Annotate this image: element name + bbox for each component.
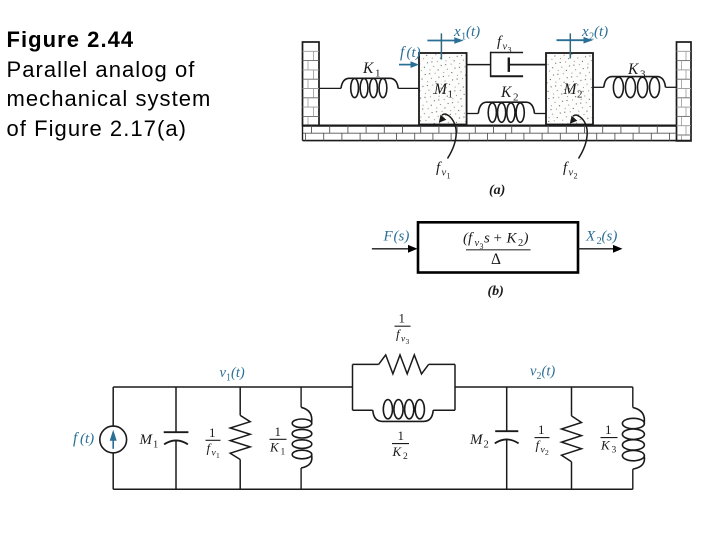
svg-text:(s): (s): [602, 229, 618, 245]
svg-text:1: 1: [216, 451, 220, 460]
label f(t): [400, 44, 421, 61]
damper fv3: [467, 52, 546, 77]
svg-text:1: 1: [448, 89, 454, 101]
svg-text:x: x: [581, 24, 589, 40]
wire left rail: [112, 387, 114, 489]
node v2(t): [530, 364, 555, 383]
svg-text:(t): (t): [80, 431, 94, 447]
svg-text:F: F: [383, 229, 394, 245]
svg-text:1: 1: [447, 172, 451, 181]
spring K3: [593, 77, 677, 98]
label K1: [362, 60, 381, 80]
block U1 transfer function: [418, 222, 578, 272]
label (a): [489, 183, 505, 198]
block denominator delta: [491, 251, 501, 268]
wall left: [303, 42, 320, 126]
svg-text:Δ: Δ: [491, 251, 501, 268]
svg-text:K: K: [500, 84, 512, 101]
svg-text:1: 1: [375, 68, 381, 80]
arrow x1(t): [427, 33, 463, 59]
arrow F(s) input: [372, 245, 418, 253]
svg-text:s: s: [484, 231, 490, 247]
svg-text:K: K: [627, 61, 639, 78]
spring K2: [467, 102, 546, 122]
svg-text:1: 1: [281, 448, 286, 458]
svg-text:1: 1: [398, 428, 405, 443]
svg-text:(t): (t): [407, 45, 421, 61]
wire top rail left: [113, 386, 352, 388]
spring K1: [319, 78, 419, 97]
resistor 1/fv2: [562, 387, 582, 489]
svg-text:1: 1: [538, 422, 545, 437]
svg-text:K: K: [600, 438, 611, 453]
label 1/K3: [600, 422, 618, 456]
svg-text:(t): (t): [231, 365, 245, 381]
label M2 cap: [469, 432, 489, 451]
svg-text:(b): (b): [488, 284, 504, 299]
svg-text:f: f: [73, 430, 80, 447]
svg-text:M: M: [563, 81, 578, 98]
caption text: [7, 25, 212, 143]
inductor 1/K3: [622, 387, 644, 489]
wire parallel box right: [454, 364, 456, 410]
label fv1: [436, 160, 451, 181]
resistor 1/fv3: [353, 355, 456, 374]
label K3: [627, 61, 646, 81]
svg-text:1: 1: [399, 311, 406, 326]
svg-text:(t): (t): [466, 24, 480, 40]
svg-text:K: K: [362, 60, 374, 77]
mass M1: [419, 53, 467, 125]
label 1/fv1: [206, 425, 221, 460]
label K2: [500, 84, 519, 104]
svg-text:3: 3: [612, 446, 617, 456]
wire parallel box left: [352, 364, 354, 410]
arrow f(t): [399, 61, 419, 68]
svg-text:1: 1: [605, 422, 612, 437]
svg-text:K: K: [506, 231, 518, 247]
svg-text:2: 2: [577, 89, 583, 101]
label fv3: [497, 34, 512, 55]
svg-text:3: 3: [406, 337, 410, 346]
svg-text:M: M: [139, 432, 154, 448]
svg-text:2: 2: [484, 440, 489, 451]
arrow x2(t): [557, 33, 593, 58]
label X2(s): [585, 229, 617, 248]
svg-text:K: K: [269, 440, 280, 455]
wire top rail right: [455, 386, 633, 388]
svg-text:2: 2: [403, 452, 408, 462]
wall right: [677, 42, 692, 141]
svg-text:M: M: [469, 432, 484, 448]
mass M2: [546, 53, 593, 125]
label (b): [488, 284, 504, 299]
svg-text:1: 1: [153, 440, 158, 451]
resistor 1/fv1: [230, 387, 250, 489]
svg-text:(t): (t): [542, 364, 556, 380]
node v1(t): [220, 365, 245, 384]
arrow fv1: [439, 114, 456, 158]
capacitor M2: [495, 387, 519, 489]
svg-text:3: 3: [640, 69, 646, 81]
block numerator: [463, 231, 529, 252]
label M1 cap: [139, 432, 159, 451]
svg-text:(t): (t): [594, 24, 608, 40]
svg-text:X: X: [585, 229, 596, 245]
inductor 1/K2: [353, 400, 456, 422]
label 1/fv3: [395, 311, 411, 347]
svg-text:1: 1: [209, 425, 216, 440]
label x2(t): [581, 24, 608, 43]
svg-text:1: 1: [275, 424, 282, 439]
svg-text:K: K: [392, 444, 403, 459]
svg-text:): ): [523, 231, 529, 247]
current source f(t): [100, 426, 127, 453]
label x1(t): [453, 24, 480, 43]
svg-text:2: 2: [513, 92, 519, 104]
svg-text:2: 2: [545, 448, 549, 457]
label 1/fv2: [535, 422, 550, 457]
svg-text:(s): (s): [394, 229, 410, 245]
svg-text:(a): (a): [489, 183, 505, 198]
label f(t) source: [73, 430, 94, 447]
wire bottom rail: [113, 488, 633, 490]
arrow X2(s) output: [578, 245, 623, 253]
svg-text:3: 3: [508, 46, 512, 55]
floor (ground): [303, 126, 692, 141]
svg-text:+: +: [494, 231, 502, 247]
label 1/K2: [392, 428, 410, 462]
label F(s): [383, 229, 410, 245]
svg-text:2: 2: [518, 238, 523, 249]
capacitor M1: [164, 387, 189, 489]
svg-text:2: 2: [574, 172, 578, 181]
inductor 1/K1: [292, 387, 312, 489]
label fv2: [563, 160, 578, 181]
arrow fv2: [570, 115, 587, 158]
block fraction bar: [466, 249, 531, 251]
svg-text:M: M: [433, 81, 448, 98]
label 1/K1: [269, 424, 287, 458]
svg-text:x: x: [453, 24, 461, 40]
